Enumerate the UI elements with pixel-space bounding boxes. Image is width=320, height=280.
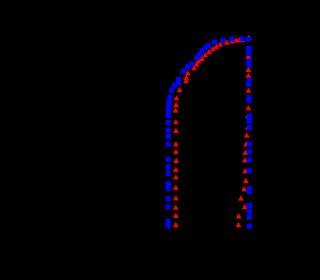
red triangle series (behind): [173, 35, 252, 227]
blue square series (front): [166, 36, 252, 229]
